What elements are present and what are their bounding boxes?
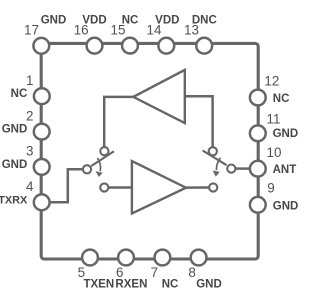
- svg-text:GND: GND: [2, 159, 28, 171]
- svg-text:VDD: VDD: [82, 14, 106, 26]
- svg-text:11: 11: [267, 111, 281, 126]
- switch S2 pole contact: [227, 165, 235, 173]
- switch S2 arrow: [216, 158, 220, 170]
- svg-text:NC: NC: [162, 278, 179, 290]
- op-amp A1 (receive amplifier, points left): [133, 70, 185, 123]
- svg-text:12: 12: [264, 73, 279, 88]
- pin 4 TXRX pad: [34, 194, 50, 210]
- svg-text:17: 17: [24, 22, 39, 37]
- svg-text:NC: NC: [122, 14, 139, 26]
- switch S1 top throw contact: [100, 147, 108, 155]
- svg-text:TXEN: TXEN: [83, 278, 114, 290]
- pin 9 GND pad: [250, 197, 266, 213]
- pin 13 DNC pad: [196, 38, 212, 54]
- svg-text:GND: GND: [196, 278, 222, 290]
- svg-text:DNC: DNC: [192, 14, 217, 26]
- switch S1 arm (left SPDT): [91, 151, 114, 166]
- svg-text:8: 8: [188, 265, 195, 280]
- pin 16 VDD pad: [87, 38, 103, 54]
- svg-text:2: 2: [26, 108, 33, 123]
- pin 2 GND pad: [34, 124, 50, 140]
- wire: TX amp output to right switch bottom throw: [186, 186, 209, 189]
- svg-text:10: 10: [267, 145, 282, 160]
- svg-text:1: 1: [26, 73, 33, 88]
- pin 11 GND pad: [250, 125, 266, 141]
- switch S2 arm (right SPDT): [203, 151, 227, 166]
- pin 1 NC pad: [34, 88, 50, 104]
- pin 6 RXEN pad: [118, 250, 134, 266]
- switch S2 top throw contact: [209, 147, 217, 155]
- svg-text:GND: GND: [273, 201, 299, 213]
- switch S1 arrow: [97, 158, 100, 171]
- svg-text:TXRX: TXRX: [0, 194, 28, 206]
- svg-text:GND: GND: [41, 14, 67, 26]
- switch S1 bottom throw contact: [100, 183, 108, 191]
- wire: RX amp input from right switch top throw: [185, 96, 213, 147]
- svg-text:ANT: ANT: [273, 164, 297, 176]
- pin 7 NC pad: [155, 250, 171, 266]
- op-amp A2 (transmit amplifier, points right): [132, 161, 186, 213]
- svg-text:NC: NC: [273, 93, 290, 105]
- package outline: [41, 43, 258, 259]
- wire: pin 4 TXRX to left switch pole: [50, 169, 83, 202]
- svg-text:GND: GND: [273, 128, 299, 140]
- svg-text:NC: NC: [11, 88, 28, 100]
- svg-text:9: 9: [267, 180, 274, 195]
- pin 12 NC pad: [250, 90, 266, 106]
- wire: right switch pole to pin 10 ANT: [236, 167, 250, 170]
- svg-text:3: 3: [26, 144, 33, 159]
- svg-text:VDD: VDD: [155, 14, 179, 26]
- svg-text:7: 7: [151, 265, 158, 280]
- pin 17 GND pad: [33, 38, 49, 54]
- pin 14 VDD pad: [158, 38, 174, 54]
- switch S1 pole contact: [83, 165, 91, 173]
- svg-text:RXEN: RXEN: [115, 278, 147, 290]
- pin 5 TXEN pad: [82, 250, 98, 266]
- svg-text:4: 4: [26, 179, 34, 194]
- svg-text:GND: GND: [2, 124, 28, 136]
- wire: left switch bottom throw to TX amp input: [109, 186, 132, 189]
- pin 8 GND pad: [191, 250, 207, 266]
- wire: RX amp output to left switch top throw: [104, 97, 133, 147]
- switch S2 bottom throw contact: [209, 183, 217, 191]
- pin 15 NC pad: [122, 38, 138, 54]
- pin 10 ANT pad: [250, 161, 266, 177]
- pin 3 GND pad: [34, 159, 50, 175]
